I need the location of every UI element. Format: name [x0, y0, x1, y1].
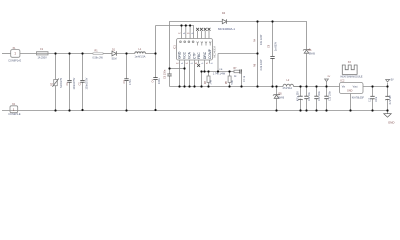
- junction (306.5,86.5): [305, 85, 307, 87]
- svg-text:COMP: COMP: [208, 48, 212, 59]
- wire: vcc link: [170, 68, 185, 70]
- svg-text:SM-B: SM-B: [278, 96, 284, 99]
- junction (184.5,68.5): [183, 67, 185, 69]
- svg-text:F1: F1: [40, 48, 43, 51]
- NC bottom pin: [198, 60, 200, 64]
- junction (208.5,86.5): [207, 85, 209, 87]
- svg-text:SM-B: SM-B: [309, 53, 315, 56]
- svg-text:S1M: S1M: [112, 58, 117, 61]
- junction (185.8,25.5): [185, 24, 187, 26]
- svg-text:a3: a3: [191, 63, 193, 65]
- svg-text:Vout: Vout: [353, 85, 358, 88]
- capacitor C13: [372, 87, 374, 97]
- connector X1: [11, 50, 20, 58]
- svg-text:1mH/1.5A: 1mH/1.5A: [135, 55, 146, 58]
- junction (201.5,71.5): [200, 70, 202, 72]
- svg-text:CON9P1+E: CON9P1+E: [8, 59, 21, 62]
- svg-text:C10 10n: C10 10n: [309, 92, 311, 101]
- svg-text:L2: L2: [287, 79, 290, 82]
- capacitor C14 polarized: [387, 83, 389, 96]
- svg-text:X3: X3: [348, 61, 352, 64]
- wire: R1 to D1: [103, 53, 112, 55]
- svg-text:C7 1n: C7 1n: [244, 75, 246, 82]
- svg-text:2.2k 1/4W: 2.2k 1/4W: [260, 59, 263, 71]
- resistor R1: [93, 53, 103, 55]
- junction (229.5,71.5): [228, 70, 230, 72]
- junction (181.5,25.5): [180, 24, 182, 26]
- svg-text:MC34063A: MC34063A: [213, 46, 216, 58]
- junction (216.5,71.5): [217, 70, 219, 72]
- junction (300.5,110.5): [299, 109, 301, 111]
- junction (126.5,110.5): [125, 109, 127, 111]
- junction (69.5,110.5): [68, 109, 70, 111]
- resistor R7 series: [230, 71, 235, 73]
- svg-text:C5 100n: C5 100n: [164, 69, 167, 79]
- wire: IC2 output: [363, 86, 388, 88]
- svg-text:100n/275V: 100n/275V: [85, 77, 88, 89]
- svg-text:1n 630V: 1n 630V: [274, 42, 277, 51]
- svg-text:b7: b7: [179, 33, 181, 35]
- junction (169.5,68.5): [168, 67, 170, 69]
- wire: feedback drop: [217, 54, 219, 72]
- svg-text:Vin: Vin: [342, 85, 346, 88]
- svg-text:10k 1/4W: 10k 1/4W: [260, 34, 263, 45]
- svg-text:GND: GND: [347, 90, 353, 93]
- svg-text:5.6k: 5.6k: [232, 79, 234, 84]
- wire: X1 to fuse: [20, 53, 37, 55]
- svg-text:a6: a6: [181, 63, 183, 65]
- svg-text:L1: L1: [139, 48, 142, 51]
- junction (208.5,71.5): [207, 70, 209, 72]
- svg-text:S10K275: S10K275: [60, 77, 63, 88]
- junction (190.1,25.5): [189, 24, 191, 26]
- junction (204.5,71.5): [203, 70, 205, 72]
- pin stub short: [209, 60, 211, 64]
- resistor R4 upper: [257, 22, 259, 54]
- svg-text:VCA: VCA: [187, 51, 191, 59]
- svg-text:CTP: CTP: [192, 52, 196, 59]
- junction (82.5,110): [81, 109, 83, 111]
- capacitor C5: [169, 69, 171, 75]
- junction (387.5,110.5): [386, 109, 388, 111]
- capacitor C4: [155, 26, 157, 78]
- svg-text:R6: R6: [253, 63, 256, 67]
- resistor R5: [229, 72, 231, 77]
- junction (82.5,53.5): [81, 52, 83, 54]
- svg-text:C8: C8: [267, 44, 270, 48]
- junction (300.5,86.5): [299, 85, 301, 87]
- svg-text:IC1: IC1: [173, 45, 176, 49]
- junction (184.5,86.5): [183, 85, 185, 87]
- junction (326.5,110.5): [325, 109, 327, 111]
- junction (55.5,53.5): [54, 52, 56, 54]
- wire: input live lead: [2, 53, 11, 55]
- svg-text:R7: R7: [234, 68, 238, 70]
- wire: D4 to corner then down: [227, 22, 307, 50]
- junction (316.5,110.5): [315, 109, 317, 111]
- IC1 body: [177, 39, 213, 61]
- svg-text:a4: a4: [191, 33, 193, 35]
- svg-text:R4: R4: [253, 38, 256, 42]
- svg-text:KIA78L05F: KIA78L05F: [352, 96, 365, 99]
- svg-text:R3: R3: [205, 80, 207, 84]
- junction (272.5,86.5): [271, 85, 273, 87]
- junction (194.5,86.5): [193, 85, 195, 87]
- svg-text:470n: 470n: [129, 79, 132, 85]
- svg-text:D4: D4: [222, 12, 226, 15]
- capacitor C9 polarized: [300, 87, 302, 97]
- heatsink X3: [342, 65, 357, 74]
- capacitor C8: [272, 22, 274, 57]
- svg-text:4.7u 16V: 4.7u 16V: [390, 95, 392, 105]
- junction (155.5,110): [154, 109, 156, 111]
- IC pin names: [176, 33, 212, 65]
- svg-text:b5: b5: [186, 63, 188, 65]
- connector X2: [10, 106, 18, 113]
- junction (272.5,21.5): [271, 20, 273, 22]
- svg-text:+5V: +5V: [389, 79, 394, 82]
- svg-text:C11 100n: C11 100n: [319, 90, 321, 101]
- wire: L1 to node: [145, 53, 155, 55]
- svg-text:DRC: DRC: [203, 51, 207, 59]
- svg-text:a1: a1: [201, 63, 203, 65]
- svg-text:9V: 9V: [328, 76, 331, 78]
- svg-text:100n/275V: 100n/275V: [73, 77, 76, 89]
- wire: node to IC top pins: [156, 26, 194, 39]
- svg-text:GND: GND: [177, 51, 181, 59]
- junction (189.5,86.5): [188, 85, 190, 87]
- wire: IC2 gnd lead: [350, 94, 352, 111]
- junction (316.5,86.5): [315, 85, 317, 87]
- ground rail: [2, 110, 388, 112]
- NC cross marks top pins: [196, 28, 210, 31]
- svg-text:C13: C13: [369, 97, 371, 102]
- regulator IC2 body: [340, 83, 364, 94]
- wire: D1 to L1: [116, 53, 134, 55]
- resistor R3: [208, 72, 210, 77]
- resistor R6 lower: [257, 54, 259, 87]
- wire: switch line up and over: [170, 22, 223, 69]
- svg-text:100n: 100n: [376, 96, 378, 102]
- svg-text:3.4k: 3.4k: [211, 79, 213, 84]
- capacitor C1: [69, 54, 71, 81]
- junction (241.5,86.5): [240, 85, 242, 87]
- capacitor C10: [306, 87, 308, 97]
- svg-text:D5: D5: [279, 93, 283, 96]
- wire: IC bottom pins to bus: [179, 60, 181, 87]
- capacitor C3: [126, 54, 128, 79]
- svg-text:VCC: VCC: [182, 51, 186, 59]
- junction (229.5,86.5): [228, 85, 230, 87]
- zener D6: [303, 49, 310, 54]
- zener D5: [276, 87, 278, 95]
- wire: feedback from IC right pin: [218, 53, 258, 55]
- svg-text:1: 1: [13, 108, 15, 112]
- junction (126.5,53.5): [125, 52, 127, 54]
- net flag on bus: [325, 79, 329, 87]
- svg-text:a9: a9: [211, 63, 213, 65]
- pin stub to divider: [204, 60, 206, 72]
- svg-text:MC34063A-1: MC34063A-1: [218, 27, 235, 31]
- svg-text:R2: R2: [51, 82, 54, 86]
- junction (276.5,86.5): [275, 85, 277, 87]
- svg-text:GND: GND: [388, 121, 394, 125]
- ground symbol: [387, 111, 389, 114]
- capacitor C12: [326, 87, 328, 97]
- junction (257.5,53.5): [256, 52, 258, 54]
- svg-text:47uH/1A: 47uH/1A: [283, 87, 293, 90]
- wire: fuse to R1: [48, 53, 93, 55]
- wire: NC top pin stubs: [197, 31, 199, 39]
- diode D4: [222, 19, 226, 23]
- divider node wire: [202, 71, 230, 73]
- svg-text:IC2: IC2: [341, 80, 345, 83]
- junction (155.5,53.5): [154, 52, 156, 54]
- svg-text:D1: D1: [112, 48, 116, 51]
- junction (372.5,86.5): [371, 85, 373, 87]
- IC1 internal arrow marks: [197, 42, 212, 46]
- svg-text:1: 1: [14, 52, 16, 56]
- svg-text:R1: R1: [95, 50, 99, 53]
- svg-text:CON9P1-E: CON9P1-E: [8, 113, 21, 116]
- +5V net flag: [386, 80, 390, 83]
- junction (276.5,110.5): [275, 109, 277, 111]
- capacitor C7 series: [240, 69, 242, 73]
- node bus: [170, 86, 284, 88]
- svg-text:a6: a6: [183, 33, 185, 35]
- junction (372.5,110.5): [371, 109, 373, 111]
- junction (306.5,110.5): [305, 109, 307, 111]
- svg-text:C3: C3: [123, 80, 126, 84]
- svg-text:C12 100n: C12 100n: [330, 90, 332, 101]
- junction (387.5,86.5): [386, 85, 388, 87]
- svg-text:b8: b8: [195, 63, 197, 65]
- svg-text:HEATSINKMODULE: HEATSINKMODULE: [341, 75, 363, 78]
- junction (201.5,86.5): [200, 85, 202, 87]
- svg-text:b2: b2: [206, 63, 208, 65]
- junction (179.5,86.5): [178, 85, 180, 87]
- inductor L2: [283, 84, 294, 86]
- wire: IC top pin stubs: [181, 26, 183, 39]
- svg-text:100n: 100n: [158, 78, 161, 84]
- fuse F1: [37, 52, 49, 55]
- diode D1: [112, 51, 116, 56]
- IC1 internal pin circles: [180, 41, 194, 43]
- svg-text:0.56x 2W: 0.56x 2W: [93, 56, 104, 59]
- varistor R2: [55, 54, 57, 80]
- IC1 pin numbers: [176, 33, 212, 65]
- capacitor C11: [316, 87, 318, 97]
- capacitor C2: [82, 54, 84, 81]
- junction (69.5,53.5): [68, 52, 70, 54]
- svg-text:b5: b5: [187, 33, 189, 35]
- svg-text:FBC: FBC: [197, 52, 201, 59]
- junction (257.5,86.5): [256, 85, 258, 87]
- junction (257.5,21.5): [256, 20, 258, 22]
- svg-text:1k: 1k: [234, 76, 237, 78]
- svg-text:1A 250V: 1A 250V: [38, 57, 48, 60]
- inductor L1: [135, 52, 146, 54]
- junction (350.5,110.5): [349, 109, 351, 111]
- capacitor C6: [201, 72, 203, 87]
- svg-text:1.74k 1/4W: 1.74k 1/4W: [213, 73, 226, 76]
- svg-text:b4: b4: [176, 63, 178, 65]
- svg-text:FB: FB: [220, 69, 223, 71]
- junction (326.5,86.5): [325, 85, 327, 87]
- junction (55.5,110.5): [54, 109, 56, 111]
- svg-text:470u 25V: 470u 25V: [298, 91, 300, 101]
